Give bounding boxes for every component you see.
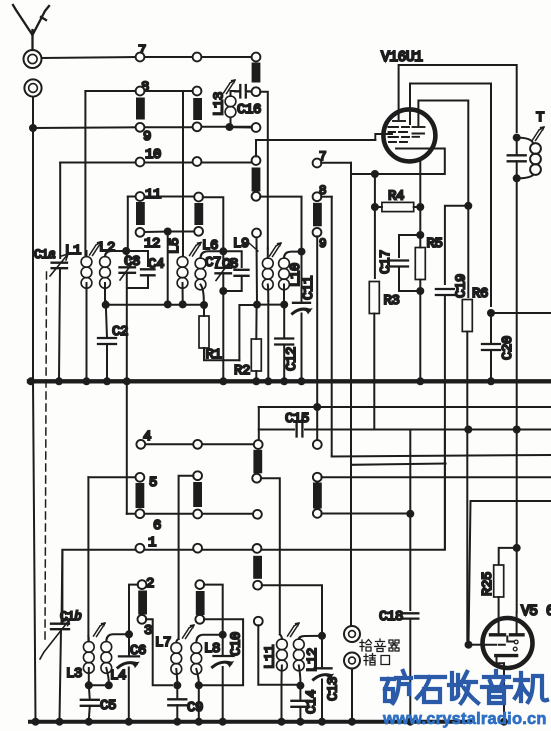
- wire row 8: [85, 90, 193, 92]
- bus node C3: [123, 377, 131, 385]
- antenna: [13, 5, 49, 50]
- wire C20 leads: [490, 317, 492, 379]
- wire C2 leads: [106, 301, 107, 379]
- switch bar 2-3 col2: [196, 591, 205, 615]
- wire row 5 left: [88, 476, 136, 478]
- contact 12b: [194, 227, 203, 236]
- node L4 top C6: [125, 630, 133, 638]
- wire C9 leads: [176, 685, 178, 720]
- variable capacitor C13: [314, 668, 334, 679]
- switch bar 11-12 col2: [194, 203, 203, 225]
- svg-text:C2: C2: [112, 324, 128, 340]
- wire V5 grid in: [469, 644, 483, 646]
- busB node L11: [278, 718, 286, 726]
- wire 3c to L12 bottom: [258, 625, 296, 685]
- node AVC2 R2: [253, 301, 261, 309]
- contact 4d: [313, 440, 322, 449]
- svg-text:9: 9: [319, 237, 326, 251]
- coil L6: [195, 251, 219, 301]
- line P ground spur: [332, 455, 551, 457]
- capacitor C5: [81, 700, 99, 706]
- svg-text:V16U1: V16U1: [381, 50, 423, 66]
- wire C8 bottom link: [227, 276, 242, 291]
- wire 2b to L8C10: [204, 585, 223, 631]
- svg-text:R4: R4: [388, 189, 404, 205]
- line Q spur: [351, 464, 446, 465]
- contact 2a: [138, 580, 147, 589]
- contact 1b: [193, 544, 202, 553]
- node L13 bottom: [226, 123, 234, 131]
- busB node C9: [173, 718, 181, 726]
- wire R2 leads: [255, 305, 257, 379]
- node AVC L5: [179, 300, 187, 308]
- wire C5 leads: [89, 685, 90, 720]
- svg-text:C17: C17: [378, 250, 394, 274]
- contact 1c: [253, 544, 262, 553]
- svg-text:3: 3: [144, 623, 152, 639]
- svg-text:L13: L13: [212, 92, 228, 116]
- rail jack bottom to bus: [351, 669, 353, 723]
- wire row 9 left: [33, 126, 136, 129]
- svg-text:L5: L5: [167, 238, 183, 254]
- contact 5b: [193, 471, 202, 480]
- coil L5: [177, 251, 188, 301]
- resistor R3: [369, 282, 379, 314]
- wire L9 pointer: [249, 243, 258, 251]
- ground terminal E2: [24, 79, 41, 96]
- resistor R6: [462, 300, 472, 332]
- variable capacitor C1a: [50, 254, 68, 276]
- resistor R25: [494, 565, 504, 597]
- bus node L1: [83, 377, 91, 385]
- svg-text:5: 5: [149, 475, 157, 491]
- variable capacitor C10: [213, 656, 234, 667]
- wire 11b to L6: [203, 197, 224, 247]
- node R25 top: [513, 544, 521, 552]
- node R4 left: [371, 203, 379, 211]
- switch bar 8-9 col1: [136, 98, 145, 120]
- wire C17 bottom: [399, 267, 416, 292]
- rail C19 down to row1: [444, 295, 446, 549]
- trimmer L2: [90, 242, 102, 256]
- trimmer L11L12: [288, 623, 300, 637]
- svg-text:C9: C9: [187, 700, 203, 716]
- trimmer L7L8: [183, 625, 195, 639]
- variable capacitor C6: [118, 656, 139, 667]
- svg-text:C11: C11: [301, 276, 317, 300]
- svg-text:6: 6: [153, 518, 161, 534]
- wire 3a down: [146, 619, 172, 685]
- resistor R4: [382, 202, 414, 211]
- wire row 6: [127, 513, 254, 515]
- contact 7 second: [313, 159, 322, 168]
- contact 6a: [136, 509, 145, 518]
- bus node left end: [27, 377, 35, 385]
- wire R1 link up to AVC2: [239, 305, 253, 360]
- wire 3b around L8: [203, 619, 243, 685]
- rail L11 bottom to bus: [281, 683, 283, 720]
- svg-text:9: 9: [143, 129, 151, 145]
- coil L1: [81, 251, 92, 379]
- capacitor C14: [291, 701, 309, 707]
- rail C13 leads: [321, 636, 323, 720]
- coil L10: [279, 252, 298, 301]
- watermark logo text: [382, 671, 547, 703]
- bus node L9: [264, 377, 272, 385]
- wire C17 top: [399, 235, 420, 257]
- wire L3L4 bottoms: [89, 684, 109, 686]
- wire C12 leads: [283, 305, 285, 379]
- contact 9 second: [313, 228, 322, 237]
- switch bar 1-2 col3: [253, 556, 262, 579]
- rail R5 to bus: [419, 291, 421, 379]
- rail R6 down: [466, 332, 468, 641]
- svg-text:C18: C18: [379, 609, 403, 625]
- svg-text:www.crystalradio.cn: www.crystalradio.cn: [382, 710, 547, 728]
- wire screen bypass feed: [491, 312, 551, 314]
- svg-text:R25: R25: [480, 572, 496, 596]
- wire lineA corner down: [258, 407, 260, 440]
- wire R1 leads: [204, 305, 239, 360]
- bus node C7C8: [219, 377, 227, 385]
- capacitor C20: [482, 344, 500, 350]
- wire: [201, 56, 252, 58]
- switch bar 5-6 col2: [193, 482, 202, 507]
- bus node C11: [298, 377, 306, 385]
- busB node C1b: [56, 718, 64, 726]
- capacitor T tank: [508, 155, 526, 161]
- busB node C14: [296, 718, 304, 726]
- wire row 9 to L13: [201, 126, 252, 128]
- capacitor C8: [235, 270, 249, 276]
- node R4 right: [416, 203, 424, 211]
- contact 5d: [313, 473, 322, 482]
- node L8 top C10: [219, 631, 227, 639]
- wire: [144, 56, 193, 58]
- svg-text:C20: C20: [500, 336, 516, 360]
- contact 5c: [252, 474, 261, 483]
- rail L2top down to C3: [126, 251, 128, 264]
- variable capacitor C11: [293, 303, 312, 314]
- rail 8sec down: [331, 197, 333, 456]
- coil L3: [83, 636, 94, 683]
- rail row5a down to L3: [87, 477, 89, 640]
- contact C16 bottom: [252, 123, 261, 132]
- contact 10c: [252, 156, 261, 165]
- coil L11: [277, 635, 288, 684]
- bus node C2: [103, 377, 111, 385]
- contact 2b: [195, 580, 204, 589]
- node L10 top: [298, 248, 306, 256]
- svg-text:1: 1: [148, 535, 156, 551]
- rail pickup from cathode: [350, 163, 352, 626]
- wire C14 leads: [299, 686, 301, 720]
- svg-text:V5 6: V5 6: [521, 604, 551, 620]
- V5 internals: [485, 613, 523, 664]
- tube V5 envelope: [483, 618, 533, 668]
- wire lineA col4 down: [316, 407, 318, 440]
- wire C19 tap: [445, 206, 468, 284]
- wire screen mid: [410, 84, 491, 307]
- label pickup jack: [360, 639, 399, 665]
- L13 coil: [225, 91, 236, 123]
- line A plate feed: [259, 406, 551, 408]
- switch bar 4-5 col3: [253, 450, 262, 474]
- svg-text:L8: L8: [204, 641, 220, 657]
- contact C16 top: [252, 87, 261, 96]
- capacitor C4: [141, 269, 155, 275]
- switch bar 8-9 second: [313, 203, 322, 227]
- contact 10b: [193, 157, 202, 166]
- wire row6 right to C18: [322, 513, 411, 515]
- cathode tap to pickup rail: [351, 173, 371, 175]
- svg-text:C4: C4: [148, 257, 164, 273]
- busB node C5: [85, 718, 93, 726]
- svg-text:L7: L7: [155, 635, 171, 651]
- rail L10top to C11: [301, 252, 303, 301]
- busB node V5: [500, 718, 508, 726]
- node V5 grid: [465, 641, 473, 649]
- contact 3a: [138, 615, 147, 624]
- rail cathode down: [374, 174, 376, 203]
- svg-text:C19: C19: [454, 274, 470, 298]
- coil L12: [293, 636, 317, 682]
- rail V5 cathode to bus: [503, 663, 505, 721]
- capacitor C19: [436, 289, 454, 295]
- svg-text:C10: C10: [229, 632, 245, 656]
- contact 8b: [193, 87, 202, 96]
- contact 8 second: [313, 192, 322, 201]
- C15 line: [259, 429, 551, 431]
- capacitor C2: [98, 338, 116, 344]
- antenna terminal E1: [24, 50, 42, 68]
- wire 5c right and down to L11: [261, 478, 280, 634]
- contact 4b: [193, 440, 202, 449]
- wire 5d right: [322, 476, 551, 478]
- rail C1b leads: [60, 550, 63, 720]
- grid wire from row10 contact: [256, 140, 375, 156]
- svg-text:R6: R6: [472, 286, 488, 302]
- node L3 bottom: [85, 681, 93, 689]
- contact 7b: [193, 53, 202, 62]
- rail L6top to C7: [222, 251, 224, 264]
- rail 12 node down: [167, 232, 169, 304]
- resistor R5: [415, 248, 425, 280]
- wire R25 top: [499, 548, 517, 564]
- node C15line Trail: [513, 426, 521, 434]
- node C7C8 gnd: [219, 287, 227, 295]
- node L12 bottom C14: [296, 682, 304, 690]
- node L4 bottom: [105, 681, 113, 689]
- svg-text:R2: R2: [234, 363, 250, 379]
- contact 3b: [195, 615, 204, 624]
- wire 5b left and down to L7: [179, 476, 194, 639]
- node AVC R1: [200, 301, 208, 309]
- node R5 top: [416, 231, 424, 239]
- rail row10 down to C1a: [59, 163, 61, 259]
- switch bar 8-9 col2: [193, 98, 202, 120]
- AVC2 line: [257, 304, 284, 306]
- rail T down: [516, 178, 518, 612]
- wire g3 inner: [418, 101, 468, 202]
- left rail to bottom bus: [33, 381, 36, 722]
- busB node C13: [318, 718, 326, 726]
- capacitor C17: [390, 261, 408, 267]
- rail row11 down to L2: [127, 197, 129, 248]
- bus node R5: [416, 377, 424, 385]
- rail plate-R5: [419, 161, 421, 231]
- rail row8 down to L1: [84, 91, 86, 255]
- wire L13 bottom: [230, 123, 252, 128]
- capacitor C18: [402, 613, 418, 618]
- wire 2a to L4C6: [129, 585, 138, 631]
- rail C7 to bus: [222, 273, 224, 379]
- cathode jog wire: [379, 149, 445, 175]
- contact 4c: [254, 440, 263, 449]
- dashed gang link: [45, 272, 47, 640]
- wire R5 leads: [419, 238, 421, 287]
- wire plate top outer: [399, 65, 517, 132]
- node row9-rail: [29, 124, 37, 132]
- node g3-C19: [464, 202, 472, 210]
- rail L8 bottom to bus: [198, 685, 200, 720]
- svg-text:L1: L1: [65, 243, 81, 259]
- trimmer L6: [190, 243, 202, 257]
- resistor R1: [199, 316, 209, 348]
- contact 11c: [252, 192, 261, 201]
- wire output feed: [471, 500, 551, 502]
- rail C11 to bus: [301, 314, 303, 380]
- wire R4 ends: [379, 206, 418, 208]
- coil L2: [100, 251, 122, 301]
- contact 5a: [136, 473, 145, 482]
- rail C6 leads: [128, 634, 130, 720]
- tube V16U1 envelope: [383, 109, 435, 161]
- rail C10 leads: [222, 635, 224, 720]
- rail cathode R3: [374, 211, 376, 279]
- node C15line C19rail: [464, 426, 472, 434]
- contact 9a: [136, 123, 145, 132]
- capacitor C12: [275, 339, 293, 345]
- switch bar 7-C16: [252, 63, 261, 83]
- contact 11a: [136, 192, 145, 201]
- wire row 9 mid: [144, 126, 193, 128]
- rail C3 to bus: [126, 273, 128, 514]
- resistor R2: [251, 339, 261, 371]
- wire to C8: [223, 251, 241, 267]
- coil L8: [191, 635, 219, 683]
- node row6 C18: [406, 510, 414, 518]
- variable capacitor C1b: [40, 619, 70, 659]
- svg-text:12: 12: [144, 236, 160, 252]
- node lineA col4: [313, 403, 321, 411]
- capacitor C15: [297, 423, 303, 437]
- rail row8 col2 down to L5: [182, 91, 184, 255]
- node R5 bottom: [416, 287, 424, 295]
- contact 8a: [136, 87, 145, 96]
- contact 4a: [136, 440, 145, 449]
- coil L4: [101, 634, 125, 683]
- wire row 12: [144, 231, 194, 234]
- node L7 bottom: [173, 681, 181, 689]
- node AVC L2: [102, 301, 110, 309]
- node AVC 12rail: [164, 300, 172, 308]
- V16U1 internals: [375, 121, 424, 149]
- variable capacitor C3: [120, 258, 137, 280]
- svg-text:C12: C12: [284, 347, 300, 371]
- trimmer L3L4: [94, 623, 106, 637]
- wire row1 corner up: [444, 430, 446, 549]
- busB node left: [32, 718, 40, 726]
- switch bar 10-11 col3: [252, 168, 261, 192]
- contact 6c: [253, 510, 262, 519]
- wire 11c to L10: [260, 197, 301, 248]
- busB node jack: [348, 718, 356, 726]
- node L2 top: [122, 247, 130, 255]
- trimmer T: [533, 127, 545, 141]
- rail C18 to bottom bus: [409, 619, 411, 722]
- node T bottom: [513, 174, 521, 182]
- pickup jack terminal bottom: [344, 653, 360, 669]
- svg-text:L9: L9: [233, 236, 249, 252]
- svg-text:L4: L4: [110, 668, 126, 684]
- wire row 10: [60, 162, 252, 164]
- left rail from E2: [32, 97, 34, 379]
- svg-text:C1a: C1a: [34, 248, 55, 262]
- AVC line left: [106, 304, 200, 306]
- contact 10a: [136, 158, 145, 167]
- contact 7c: [252, 53, 261, 62]
- busB node L8: [195, 718, 203, 726]
- node T top: [513, 134, 521, 142]
- contact 7a: [136, 53, 145, 62]
- contact 6d: [313, 509, 322, 518]
- svg-text:C3: C3: [124, 254, 140, 270]
- node 12-L5col: [164, 228, 172, 236]
- rail 9sec down: [316, 236, 318, 404]
- variable capacitor C7: [216, 259, 233, 281]
- pickup jack terminal top: [344, 626, 360, 642]
- node L12 top: [318, 632, 326, 640]
- svg-text:C8: C8: [222, 257, 238, 273]
- rail 12c down to R2 node: [256, 237, 259, 304]
- wire 2c to L12: [262, 585, 322, 632]
- contact 12c: [252, 229, 261, 238]
- main ground bus: [29, 379, 551, 383]
- contact 11b: [194, 193, 203, 202]
- bus node C1a: [55, 377, 63, 385]
- trimmer L13: [224, 80, 236, 94]
- switch bar 5-6 col4: [313, 483, 322, 509]
- rail C1a to bus: [59, 268, 60, 379]
- wire 8sec right: [321, 196, 332, 198]
- wire 7sec to cathode rail: [321, 162, 351, 164]
- bottom ground bus: [30, 720, 470, 724]
- contact 3c: [254, 617, 263, 626]
- svg-text:11: 11: [145, 187, 161, 203]
- switch bar 11-12 col1: [136, 202, 145, 225]
- wire C4 bottom link: [127, 275, 148, 288]
- node screen line: [487, 309, 495, 317]
- svg-text:10: 10: [145, 147, 161, 163]
- capacitor C9: [168, 699, 186, 705]
- contact 12a: [136, 228, 145, 237]
- node L8 bottom: [195, 681, 203, 689]
- rail C18 branch: [409, 430, 411, 611]
- capacitor C16: [235, 85, 252, 98]
- busB node C18: [406, 718, 414, 726]
- node L6 top: [219, 247, 227, 255]
